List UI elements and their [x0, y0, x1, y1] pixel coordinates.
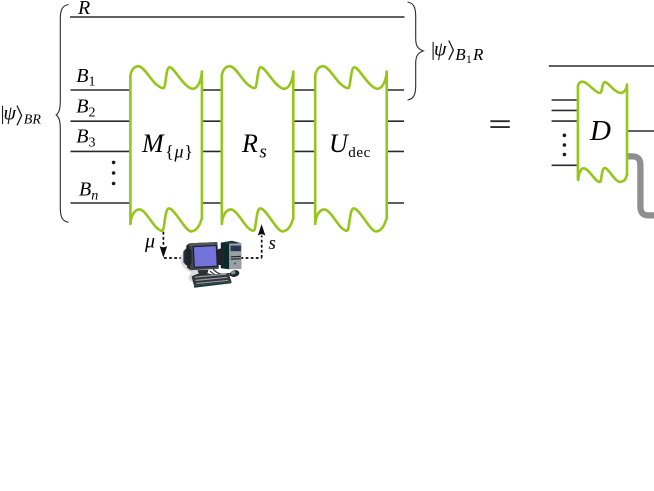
shadow — [181, 247, 208, 287]
D right edge — [626, 85, 629, 177]
wire stubs between M and Rs — [201, 90, 223, 203]
box M_{mu} — [130, 66, 202, 231]
label |psi>_B1R — [430, 39, 484, 67]
keyboard front edge — [194, 282, 232, 288]
monitor bezel — [189, 242, 219, 270]
svg-text:s: s — [269, 233, 276, 254]
monitor cables — [213, 269, 230, 275]
box R_s — [222, 66, 293, 231]
vertical dots between B3 and Bn — [112, 161, 116, 186]
D top edge — [578, 82, 627, 93]
wire stubs between Rs and Udec — [292, 90, 316, 203]
computer clipart — [181, 241, 242, 288]
D bottom edge — [578, 168, 626, 182]
svg-text:R: R — [77, 0, 90, 19]
right: dots — [563, 134, 567, 157]
dashed mu line — [163, 232, 261, 258]
tower drive bay — [231, 246, 241, 252]
svg-text:μ: μ — [144, 231, 155, 253]
keyboard keys speckle — [195, 274, 229, 284]
D left edge — [577, 86, 580, 180]
mu arrowhead (down) — [160, 246, 168, 258]
box U_dec — [315, 66, 387, 231]
wire Bn (left) — [71, 202, 132, 204]
mouse — [229, 269, 240, 278]
wire B2 (left) — [71, 120, 132, 122]
right: wire R — [549, 65, 654, 67]
tower left side — [221, 243, 230, 270]
tower slots — [231, 256, 241, 259]
svg-text:|ψ: |ψ — [0, 102, 17, 124]
s arrowhead (up) — [258, 224, 266, 236]
svg-text:D: D — [589, 115, 611, 147]
right: D output wire — [627, 130, 654, 132]
svg-text:|ψ: |ψ — [430, 39, 447, 61]
label |psi>_BR — [0, 102, 41, 127]
wire stubs right of Udec — [386, 90, 404, 203]
tower top — [221, 241, 242, 244]
right speaker — [217, 249, 224, 266]
right: D input wires — [552, 100, 579, 165]
left speaker — [184, 248, 191, 265]
gray cable — [625, 156, 654, 215]
wire R — [70, 16, 405, 18]
screen — [193, 245, 217, 267]
right brace — [408, 2, 424, 100]
left brace — [56, 5, 68, 223]
box D — [578, 80, 627, 182]
keyboard top — [192, 273, 232, 286]
stand — [198, 270, 209, 276]
equals sign — [490, 121, 509, 127]
svg-text:BR: BR — [24, 112, 42, 127]
wire B1 (left) — [71, 89, 132, 91]
tower front — [229, 243, 241, 269]
wire B3 (left) — [71, 150, 132, 152]
